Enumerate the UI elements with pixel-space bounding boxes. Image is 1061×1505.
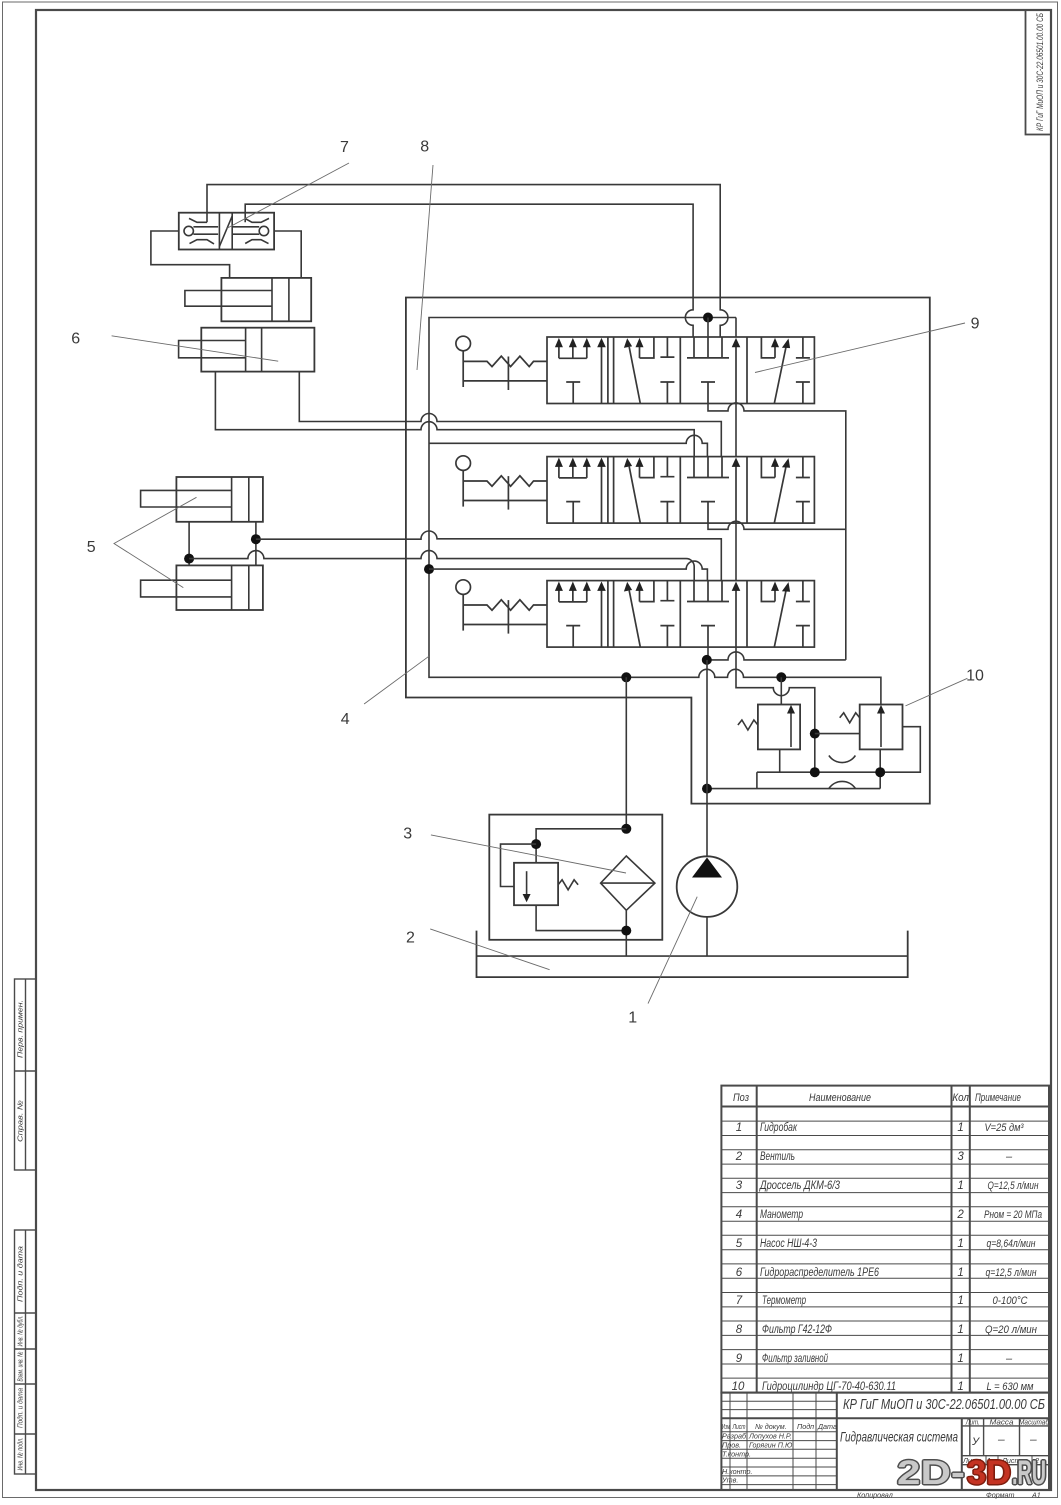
cylinder 6b [179,328,315,372]
svg-text:4: 4 [736,1209,742,1221]
wire relief bottom manifold [757,727,920,773]
svg-text:8: 8 [420,139,429,156]
filter element [601,856,655,910]
title block [721,1393,1049,1490]
wire RV2 bottom [879,749,881,788]
wire return to filter [625,677,627,829]
svg-text:2: 2 [956,1209,964,1221]
relief valve RV2 [840,705,903,750]
parts table [721,1086,1049,1393]
wire drain U2 [708,521,846,529]
svg-text:Пров.: Пров. [722,1440,741,1449]
svg-text:Масса: Масса [990,1417,1014,1426]
svg-text:Фильтр Г42-12Ф: Фильтр Г42-12Ф [762,1324,832,1336]
wire pump bottom manifold [707,788,880,790]
top-right doc cell [1026,10,1052,135]
wire return branch to U2 [429,435,707,456]
svg-text:Лит.: Лит. [965,1417,980,1426]
svg-text:Справ. №: Справ. № [16,1100,25,1142]
svg-text:№ докум.: № докум. [755,1422,787,1431]
svg-text:Т.контр.: Т.контр. [722,1449,751,1458]
svg-text:1: 1 [957,1324,963,1336]
svg-text:1: 1 [628,1010,637,1027]
svg-text:Манометр: Манометр [760,1209,803,1221]
watermark 2D-3D.RU [895,1453,1047,1494]
svg-text:.RU: .RU [1012,1454,1046,1492]
svg-text:3D: 3D [967,1454,1011,1492]
svg-text:3: 3 [403,825,412,842]
node W1 [702,655,712,665]
left stamp upper [15,979,37,1170]
node return-filter [621,672,631,682]
wire cyl5a to U3 [256,531,721,581]
node cyl5 left [184,554,194,564]
valve block U1 [456,336,815,403]
svg-text:Q=20 л/мин: Q=20 л/мин [985,1324,1037,1336]
leader 3 [431,835,626,873]
svg-text:Копировал: Копировал [857,1491,893,1500]
svg-text:6: 6 [71,330,80,347]
svg-text:1: 1 [736,1122,742,1134]
svg-text:1: 1 [957,1180,963,1192]
node pump branch [702,784,712,794]
leader 9 [755,323,965,373]
wire P through blocks [736,404,815,734]
wire RV1 top [780,677,782,704]
filter unit box 3 [489,815,662,940]
wire cyl5 left pair [188,522,190,566]
svg-text:Взам. инв. №: Взам. инв. № [16,1352,25,1382]
wire cyl5 right pair [255,522,257,566]
leader 2 [430,929,549,970]
svg-text:1: 1 [957,1381,963,1393]
svg-text:Лист: Лист [732,1422,746,1431]
svg-text:9: 9 [971,315,980,332]
valve block U3 [456,580,815,647]
node rv-left [810,767,820,777]
svg-text:3: 3 [957,1151,964,1163]
svg-text:7: 7 [340,139,349,156]
svg-text:Гидробак: Гидробак [760,1122,797,1134]
svg-text:2: 2 [735,1151,743,1163]
svg-text:–: – [1005,1151,1013,1163]
svg-text:–: – [1005,1353,1013,1365]
svg-text:Q=12,5 л/мин: Q=12,5 л/мин [988,1180,1039,1192]
leader 6 [112,336,279,361]
wire relief left drop [756,772,758,788]
svg-text:5: 5 [736,1238,743,1250]
node filter top [621,824,631,834]
svg-text:Утв.: Утв. [721,1476,738,1485]
svg-text:Примечание: Примечание [975,1092,1021,1104]
wire RV1 drain [779,749,781,772]
wire bypass pilot loop [501,844,537,886]
wire bypass bottom [536,905,626,930]
valve block U2 [456,456,815,523]
svg-text:Термометр: Термометр [762,1295,806,1307]
svg-text:Инв. № подл.: Инв. № подл. [16,1438,25,1471]
svg-text:–: – [1029,1432,1037,1446]
svg-text:Гидрораспределитель 1РЕ6: Гидрораспределитель 1РЕ6 [760,1267,879,1279]
cylinder 5b [141,565,263,610]
node filter bottom [621,926,631,936]
svg-text:10: 10 [732,1381,745,1393]
node rv-right [875,767,885,777]
svg-text:1: 1 [957,1353,963,1365]
wire bypass top [536,829,626,863]
node return-rv1 [776,672,786,682]
leader 1 [648,897,697,1004]
wire drain U1 [708,403,846,660]
wire pump suction [706,917,708,956]
svg-text:1: 1 [957,1238,963,1250]
svg-text:Дроссель ДКМ-6/3: Дроссель ДКМ-6/3 [758,1180,840,1192]
wire return branch to U3 [429,561,707,581]
boundary 4 outer [406,298,930,804]
leader 7 [227,163,349,229]
wire pump pressure line [706,660,708,856]
svg-text:10: 10 [966,668,984,685]
svg-text:КР ГиГ МиОП и 30С-22.06501.00.: КР ГиГ МиОП и 30С-22.06501.00.00 СБ [1035,13,1045,131]
pump 5 [677,856,738,917]
svg-text:Кол: Кол [952,1092,969,1104]
svg-text:Фильтр заливной: Фильтр заливной [762,1353,828,1365]
svg-text:1: 1 [957,1267,963,1279]
left stamp lower [15,1230,37,1474]
wire filter drain [625,910,627,956]
svg-text:У: У [971,1436,980,1448]
wire W1 [707,652,846,660]
svg-text:Подп. и дата: Подп. и дата [16,1388,25,1428]
svg-text:2D-: 2D- [897,1454,965,1492]
svg-text:Перв. примен.: Перв. примен. [16,1000,25,1058]
svg-text:Гидравлическая система: Гидравлическая система [840,1429,958,1445]
svg-text:Горягин П.Ю.: Горягин П.Ю. [749,1440,794,1449]
svg-text:7: 7 [736,1295,743,1307]
wire drain U3 to pump line [707,647,709,660]
leader 4 [364,656,429,704]
leader 8 [417,165,433,370]
throttle arcs [829,756,856,789]
svg-text:Насос НШ-4-3: Насос НШ-4-3 [760,1238,817,1250]
svg-text:Изм: Изм [722,1422,730,1431]
wire A lock7 to U1 [207,185,728,337]
svg-text:6: 6 [736,1267,743,1279]
svg-text:Гидроцилиндр ЦГ-70-40-630.11: Гидроцилиндр ЦГ-70-40-630.11 [762,1381,896,1393]
svg-text:Вентиль: Вентиль [760,1151,795,1163]
svg-text:Подп: Подп [797,1422,814,1431]
wire B lock7 to U1 [245,204,693,337]
svg-text:V=25 дм³: V=25 дм³ [985,1122,1024,1134]
node cyl5 right [251,534,261,544]
svg-text:Рном = 20 МПа: Рном = 20 МПа [984,1209,1042,1221]
svg-text:КР ГиГ МиОП и 30С-22.06501.00.: КР ГиГ МиОП и 30С-22.06501.00.00 СБ [843,1397,1045,1413]
svg-text:4: 4 [341,711,350,728]
tank 1 [477,931,908,978]
leader 5 [114,497,197,587]
wire pilot to RV2 [815,733,860,735]
svg-text:Разраб.: Разраб. [722,1432,748,1441]
cylinder 5a [141,477,263,522]
leader 10 [906,678,968,706]
tank return manifold [429,318,881,705]
svg-text:2: 2 [406,930,415,947]
svg-text:Наименование: Наименование [809,1092,871,1104]
svg-text:q=8,64л/мин: q=8,64л/мин [987,1238,1036,1250]
relief valve RV1 [738,705,800,750]
wire P feed U1 [708,318,736,338]
svg-text:1: 1 [957,1295,963,1307]
cylinder 6a [185,278,311,321]
svg-text:1: 1 [957,1122,963,1134]
wire lock7 right to cylinder [274,231,301,278]
svg-text:Инв. № дубл.: Инв. № дубл. [16,1316,25,1347]
node return-top [703,313,713,323]
svg-text:8: 8 [736,1324,743,1336]
wire cyl5b to U3 [189,551,694,581]
svg-text:0-100°С: 0-100°С [993,1295,1028,1307]
svg-text:Дата: Дата [817,1422,837,1431]
bypass valve [514,863,578,905]
svg-text:–: – [997,1432,1005,1446]
node bypass pilot [531,839,541,849]
svg-text:Подп. и дата: Подп. и дата [16,1246,25,1302]
wire cyl6b left to U2 [215,372,694,457]
hydraulic lock 7 [179,213,274,250]
wire cyl6b right to U2 [299,372,721,457]
svg-text:q=12,5 л/мин: q=12,5 л/мин [986,1267,1037,1279]
svg-text:L = 630 мм: L = 630 мм [987,1381,1034,1393]
svg-text:Масштаб: Масштаб [1019,1417,1050,1426]
node P-pilot [810,729,820,739]
node return-left [424,564,434,574]
svg-text:3: 3 [736,1180,743,1192]
svg-text:Поз: Поз [733,1092,749,1104]
wire P drop to relief [814,734,816,773]
wire lock7 left to cylinder [151,231,230,278]
svg-text:5: 5 [87,539,96,556]
svg-text:9: 9 [736,1353,743,1365]
svg-text:Лопухов Н.Р.: Лопухов Н.Р. [748,1432,792,1441]
